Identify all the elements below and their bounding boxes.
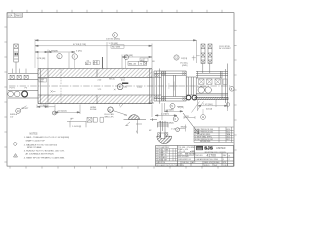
svg-text:1/8 [3]: 1/8 [3] xyxy=(149,103,155,105)
svg-text:P3: P3 xyxy=(25,87,27,89)
left assembly top ticks xyxy=(13,69,26,74)
title block frame xyxy=(156,146,234,167)
step detail left xyxy=(67,117,104,127)
title block bottom rows xyxy=(181,161,228,166)
dims above journal xyxy=(140,58,148,62)
svg-text:CHK DH: CHK DH xyxy=(182,162,189,164)
weld dome detail xyxy=(128,115,139,120)
journal hatch patches xyxy=(154,74,159,78)
svg-text:8/17: 8/17 xyxy=(227,139,231,141)
balloon 5 xyxy=(170,104,175,109)
flange leader lines xyxy=(192,102,204,113)
svg-text:4. PAINT EPOXY PRIMER 2 COATS: 4. PAINT EPOXY PRIMER 2 COATS MIN. xyxy=(24,156,65,159)
stacked labels above tube xyxy=(93,60,97,64)
svg-text:-.005: -.005 xyxy=(40,81,44,83)
svg-text:1/2[13]: 1/2[13] xyxy=(178,107,185,109)
svg-text:1/4: 1/4 xyxy=(87,60,90,62)
detail weld half-disc (hatched) xyxy=(157,136,172,143)
detail balloon xyxy=(176,128,180,132)
svg-text:DWG NO.: DWG NO. xyxy=(195,155,203,157)
balloon 13 xyxy=(52,111,56,115)
svg-text:DATE 1/14: DATE 1/14 xyxy=(204,161,212,164)
svg-text:OTH SPEC: OTH SPEC xyxy=(187,147,196,149)
svg-text:A REV PER ECN 104: A REV PER ECN 104 xyxy=(195,128,213,131)
svg-text:.05: .05 xyxy=(159,122,162,124)
tube internal step lines xyxy=(40,69,97,104)
mid dim line xyxy=(107,42,152,68)
small end circle xyxy=(226,103,230,107)
svg-text:2 SHAFT DR: 2 SHAFT DR xyxy=(158,151,169,154)
hidden journal line (dashed) xyxy=(60,69,62,103)
ref label box xyxy=(111,45,124,48)
left stud (section) xyxy=(14,44,19,73)
title block left grid xyxy=(156,146,178,162)
svg-text:2.00: 2.00 xyxy=(98,80,102,82)
left lower dims xyxy=(37,105,80,115)
svg-text:CAD 41700: CAD 41700 xyxy=(156,161,165,164)
key-plan label box top-left xyxy=(7,13,22,17)
end balloon xyxy=(230,87,235,92)
svg-text:FLUSH: FLUSH xyxy=(90,109,97,111)
right lower dim group xyxy=(152,103,183,120)
svg-text:41700: 41700 xyxy=(207,154,217,158)
svg-text:1 7/8[48]: 1 7/8[48] xyxy=(49,50,58,52)
svg-text:MATL: MATL xyxy=(178,152,182,155)
grease balloon xyxy=(16,108,21,113)
svg-text:4 [102]: 4 [102] xyxy=(206,108,213,110)
revision table xyxy=(194,127,234,142)
svg-text:1 CM: 1 CM xyxy=(171,128,176,130)
balloon 3 xyxy=(72,54,77,59)
dims below right assembly xyxy=(198,100,228,111)
svg-text:W/ LOCKNUT: W/ LOCKNUT xyxy=(219,48,232,50)
note diamond symbol xyxy=(13,142,17,146)
svg-text:1 7/8[48]: 1 7/8[48] xyxy=(40,105,48,107)
svg-text:ROLL ASSY 10.75 OD COMPOSITE: ROLL ASSY 10.75 OD COMPOSITE xyxy=(156,164,184,167)
nut row xyxy=(199,79,227,84)
svg-text:AT JOURNALS BOTH ENDS: AT JOURNALS BOTH ENDS xyxy=(26,153,55,156)
bearing inner rect xyxy=(186,77,196,95)
svg-text:WELD 2PL: WELD 2PL xyxy=(105,116,114,118)
main centerline xyxy=(9,85,231,87)
svg-text:BAL 2A: BAL 2A xyxy=(129,62,137,65)
balance weight symbol on centerline xyxy=(122,82,128,84)
svg-text:[8.2]: [8.2] xyxy=(121,79,125,81)
svg-text:1 #04 B [6]: 1 #04 B [6] xyxy=(72,126,82,128)
extension line at x35 xyxy=(34,39,36,68)
tube end double line xyxy=(149,69,151,104)
svg-text:67 5/8 [1718]: 67 5/8 [1718] xyxy=(73,44,86,46)
svg-text:( 1: ( 1 xyxy=(70,119,72,121)
svg-text:C UPDATED BRG: C UPDATED BRG xyxy=(195,133,211,136)
svg-text:3/8[10]: 3/8[10] xyxy=(181,127,187,129)
svg-text:2: 2 xyxy=(229,159,230,161)
svg-text:SHAFT C1045 TGP: SHAFT C1045 TGP xyxy=(26,140,46,143)
roll tube top wall (hatched) xyxy=(38,69,152,78)
flange edge dark band xyxy=(195,97,228,99)
svg-text:4: 4 xyxy=(223,159,224,161)
roll tube outline xyxy=(38,53,152,104)
svg-text:SHT: SHT xyxy=(214,165,217,167)
balloon 6 xyxy=(173,117,178,122)
svg-text:3/4 NPT: 3/4 NPT xyxy=(22,108,30,110)
face-to-face dimension xyxy=(35,45,152,47)
svg-text:.50 .50 TYP: .50 .50 TYP xyxy=(197,87,207,89)
short dimension row xyxy=(35,50,75,69)
right end cap lines xyxy=(196,64,228,109)
lock rings xyxy=(186,95,191,100)
svg-text:DWN GRW 1/14: DWN GRW 1/14 xyxy=(178,159,190,161)
sheet border frame xyxy=(7,13,234,166)
svg-text:2 7/8: 2 7/8 xyxy=(185,116,189,118)
svg-text:1/8[3]: 1/8[3] xyxy=(169,123,174,125)
svg-text:2. BALANCE TO ISO G2.5 AT 600: 2. BALANCE TO ISO G2.5 AT 600 xyxy=(24,143,58,146)
svg-text:1: 1 xyxy=(15,156,16,158)
shaft-end detail view xyxy=(150,118,168,136)
svg-text:NOTES: NOTES xyxy=(30,133,38,135)
svg-text:1 OF 2: 1 OF 2 xyxy=(223,165,228,167)
svg-text:SJS: SJS xyxy=(204,146,213,151)
svg-text:RPM 2 PLANE: RPM 2 PLANE xyxy=(27,146,42,149)
section leader arrow xyxy=(183,113,199,134)
journal center mark xyxy=(168,82,179,91)
balloon 2 xyxy=(57,54,62,59)
overall length dimension xyxy=(35,40,197,64)
note triangle symbol xyxy=(14,154,18,157)
svg-text:REVISIONS: REVISIONS xyxy=(200,141,211,143)
svg-text:QTY PART LIST: QTY PART LIST xyxy=(156,146,170,149)
svg-text:3. RUNOUT NOT TO EXCEED .005 T: 3. RUNOUT NOT TO EXCEED .005 T.I.R. xyxy=(24,151,65,153)
balloon 4 xyxy=(124,55,129,60)
svg-text:1 7/8 [48]: 1 7/8 [48] xyxy=(37,58,46,60)
svg-text:1.6/: 1.6/ xyxy=(10,116,14,118)
roller circles xyxy=(198,87,204,93)
balloon 1 (overall) xyxy=(113,33,118,38)
small label with leader xyxy=(85,62,90,65)
svg-text:[4345]: [4345] xyxy=(182,65,188,67)
bore tolerance box xyxy=(39,78,46,82)
svg-text:3 SHAFT ID: 3 SHAFT ID xyxy=(158,154,168,157)
weld seam bold line xyxy=(101,57,103,69)
weld symbol in bore xyxy=(51,90,56,92)
svg-text:45°: 45° xyxy=(149,130,152,132)
seal blocks xyxy=(10,75,28,79)
svg-text:LIMITED: LIMITED xyxy=(216,148,225,150)
svg-text:1/2[13]: 1/2[13] xyxy=(181,58,188,60)
svg-text:3 [76]: 3 [76] xyxy=(76,50,82,52)
svg-text:6/10: 6/10 xyxy=(227,129,231,131)
svg-text:1. MATL: TUBE A513 10.75 OD X: 1. MATL: TUBE A513 10.75 OD X .50 W(DRN) xyxy=(24,136,70,139)
journal housing block xyxy=(152,69,186,104)
roll tube bottom wall (hatched) xyxy=(38,95,152,104)
svg-text:P1 P2: P1 P2 xyxy=(10,87,15,89)
stud B (section) xyxy=(208,44,212,73)
svg-text:C:\ACAD\DWG\41700-2.DWG: C:\ACAD\DWG\41700-2.DWG xyxy=(195,158,218,161)
svg-text:7 1/2 [190]: 7 1/2 [190] xyxy=(203,104,213,106)
svg-text:NO DIM: NO DIM xyxy=(112,47,120,49)
balance spec label box xyxy=(128,61,147,65)
svg-text:L0A: L0A xyxy=(8,13,13,17)
border tick marks xyxy=(4,10,236,169)
svg-text:5/8: 5/8 xyxy=(152,61,155,63)
balloon 11 xyxy=(201,115,206,120)
svg-text:1 1/2[38]: 1 1/2[38] xyxy=(166,110,174,112)
svg-text:DWG1: DWG1 xyxy=(15,13,23,17)
company logo xyxy=(196,146,203,150)
left bearing assembly xyxy=(8,73,38,98)
svg-text:2 1/4[57]: 2 1/4[57] xyxy=(161,114,169,116)
svg-text:SIZE D: SIZE D xyxy=(204,165,210,167)
svg-text:SCALE: SCALE xyxy=(214,161,220,164)
svg-text:1.75: 1.75 xyxy=(98,89,102,91)
stud A (section) xyxy=(201,44,205,73)
svg-text:4 1/2[114]: 4 1/2[114] xyxy=(58,111,67,113)
svg-text:SEC A: SEC A xyxy=(109,78,115,81)
svg-text:143 3/4 [3651]: 143 3/4 [3651] xyxy=(106,39,120,41)
weld balloon xyxy=(108,107,113,112)
bearing rollers xyxy=(8,91,14,97)
